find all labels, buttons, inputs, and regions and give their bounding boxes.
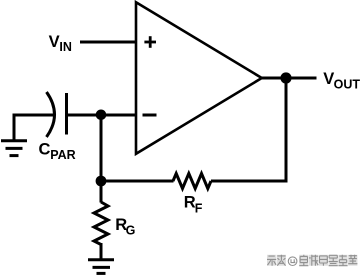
capacitor C_PAR straight plate	[65, 93, 68, 135]
wire RG to bottom ground	[100, 243, 103, 260]
wire RF to output corner	[211, 78, 286, 181]
svg-text:OUT: OUT	[334, 78, 360, 92]
capacitor C_PAR curved plate	[47, 92, 55, 137]
ground (bottom)	[88, 260, 114, 274]
wire node B to RF	[101, 180, 174, 183]
svg-text:V: V	[49, 33, 60, 51]
svg-text:G: G	[126, 224, 136, 238]
wire capacitor to inverting input	[67, 114, 138, 117]
resistor RF	[173, 174, 211, 189]
wire VIN to + input	[80, 41, 137, 44]
op-amp U1	[136, 2, 262, 154]
svg-text:C: C	[39, 140, 51, 158]
ground (left)	[1, 141, 27, 156]
wire ground to capacitor left plate	[13, 114, 54, 117]
label RG	[115, 216, 135, 238]
node C (output junction dot)	[280, 72, 291, 83]
pin - (inverting input mark)	[143, 114, 157, 117]
label CPAR	[39, 140, 76, 162]
wire node A down to node B	[100, 115, 103, 203]
wire opamp output to VOUT	[260, 77, 317, 80]
node A (junction dot at inverting input)	[96, 110, 107, 121]
svg-text:IN: IN	[59, 40, 72, 54]
label VIN	[49, 33, 72, 54]
resistor RG	[94, 202, 108, 245]
node B (junction dot feedback/RG)	[96, 176, 107, 187]
svg-text:V: V	[323, 70, 334, 88]
svg-text:PAR: PAR	[50, 148, 75, 162]
label RF	[184, 194, 203, 216]
label VOUT	[323, 70, 360, 92]
watermark (simulated gray CJK text)	[267, 255, 357, 266]
svg-text:F: F	[195, 201, 203, 215]
pin + (noninverting input mark)	[144, 36, 156, 48]
wire ground stem left	[13, 114, 16, 141]
